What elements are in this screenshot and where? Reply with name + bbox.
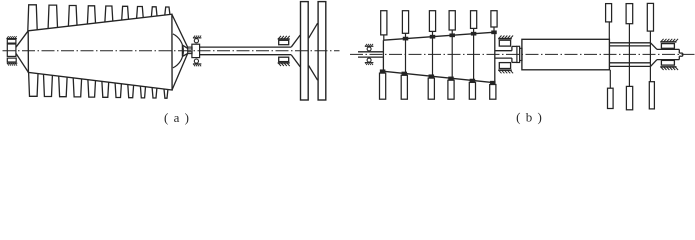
left bearing bottom ground hatch (a) <box>7 63 17 65</box>
shaft collar (a) <box>188 47 192 54</box>
centerline of rotor (b) <box>350 53 695 55</box>
bearing journal (a) <box>192 44 200 57</box>
cone disc 1 to disc 2 top (a) <box>309 23 318 38</box>
overhung disc R2 bottom (b) <box>626 86 632 109</box>
cone disc 1 to disc 2 bottom (a) <box>309 66 318 81</box>
coupling flange B (b) <box>520 48 522 60</box>
overhung disc R3 stem (b) <box>649 31 651 82</box>
rolling bearing top, right of drum (a) <box>193 36 202 43</box>
right journal flare (b) <box>651 43 683 67</box>
mid journal bearing top (b) <box>498 36 513 47</box>
overhung disc R1 bottom (b) <box>608 70 614 109</box>
tapered rotor drum (b) <box>383 32 494 82</box>
right shaft outer (b) <box>609 43 650 67</box>
left bearing bottom (b) <box>365 58 374 65</box>
cone from left bearing to drum (a) <box>16 31 29 73</box>
svg-text:( b ): ( b ) <box>516 110 543 125</box>
blade root pads (b) <box>380 31 496 84</box>
rolling bearing bottom, right of drum (a) <box>193 59 202 66</box>
turbine blade row, top of drum (a) <box>28 5 170 31</box>
svg-text:( a ): ( a ) <box>164 110 190 125</box>
left bearing bottom shell (a) <box>7 58 16 62</box>
coupling flange A (b) <box>517 46 520 62</box>
internal disc lines (b) <box>406 34 474 81</box>
right bearing top (b) <box>660 39 678 49</box>
disc 1 (a) <box>301 2 309 100</box>
overhung disc R3 top (b) <box>647 3 653 31</box>
cone shaft to disc 1 bottom (a) <box>291 55 300 67</box>
left bearing top (b) <box>365 44 374 51</box>
end cone of drum to hub (a) <box>172 14 188 89</box>
connecting shaft (a) <box>200 47 292 55</box>
journal bearing bottom, left of discs (a) <box>278 57 290 66</box>
left bearing journal block (a) <box>7 44 16 56</box>
left bearing top ground hatch (a) <box>6 36 17 38</box>
mid shaft (b) <box>495 51 512 58</box>
cone shaft to disc 1 top (a) <box>291 35 300 47</box>
blade rects top row (b) <box>381 11 497 41</box>
tapered drum body (a) <box>28 14 172 90</box>
journal bearing top, left of discs (a) <box>278 36 290 45</box>
turbine blade row, bottom of drum (a) <box>29 72 168 98</box>
mid shaft step (b) <box>512 46 517 62</box>
right shaft inner (b) <box>609 46 650 63</box>
left stub shaft (b) <box>358 52 383 57</box>
overhung disc R3 bottom (b) <box>649 82 654 109</box>
label (a) <box>164 110 190 125</box>
label (b) <box>516 110 543 125</box>
overhung disc R2 stem (b) <box>628 24 630 87</box>
overhung disc R2 top (b) <box>626 4 633 24</box>
dished end arc of drum (a) <box>173 34 184 68</box>
blade rects bottom row (b) <box>380 71 496 99</box>
disc 2 (a) <box>318 2 326 100</box>
mid journal bearing bottom (b) <box>498 63 513 74</box>
generator rotor body (b) <box>522 39 610 70</box>
centerline of rotor (a) <box>3 50 340 52</box>
right bearing bottom (b) <box>660 60 678 70</box>
overhung disc R1 top (b) <box>606 4 612 40</box>
left bearing top shell (a) <box>7 39 16 43</box>
shaft hub funnel (a) <box>182 45 187 56</box>
